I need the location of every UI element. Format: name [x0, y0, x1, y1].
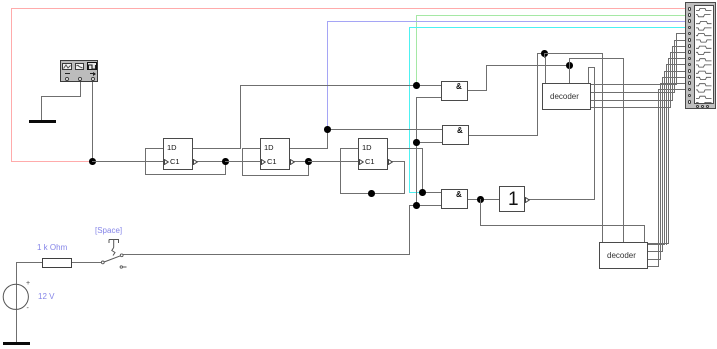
wire cyan: FF3 Q node to logic analyzer ch4	[0, 0, 717, 1]
wire: FF1 Q output up and right to node A	[0, 0, 717, 1]
wire: AND3 output junction down and right to decoder2 pin3	[0, 0, 717, 1]
node FF2 Q / blue wire junction	[324, 126, 331, 133]
wire: decoder1 output 2 to analyzer ch6	[0, 0, 717, 1]
AND gate U4	[0, 0, 717, 1]
wire: node D2 up and right then down to decoder2 pin2	[0, 0, 717, 1]
wire: decoder1 output 4 to analyzer ch8	[0, 0, 717, 1]
wire: AND3 output to inverter input	[468, 199, 499, 200]
wire red: function generator + to logic analyzer ch1 (routed left/top)	[0, 0, 717, 1]
wire green: node A (FF1 Q) up to logic analyzer ch2	[0, 0, 717, 1]
wire: AND1 output up and right to node D2	[0, 0, 717, 1]
wire: function generator + terminal down to node CLK	[92, 81, 93, 161]
wire: node D1 jog down to decoder1 pin1	[0, 0, 717, 1]
ground (function generator)	[29, 120, 56, 123]
decoder U8	[0, 0, 717, 1]
wire: decoder2 output 4 to analyzer ch14	[0, 0, 717, 1]
label V1 plus	[26, 280, 30, 287]
node CLK junction	[89, 158, 96, 165]
node switch/AND2 junction	[413, 139, 420, 146]
wire: decoder2 output 3 to analyzer ch13	[0, 0, 717, 1]
label V1 minus	[27, 305, 29, 312]
node on FF3 feedback loop	[368, 190, 375, 197]
flip-flop U1 (T from D)	[0, 0, 717, 1]
node switch/AND3 junction	[413, 202, 420, 209]
wire: switch signal chain vertical with branches to AND gates	[0, 0, 717, 1]
wire: 12V source to resistor	[0, 0, 717, 1]
inverter U7	[0, 0, 717, 1]
node D2 junction	[566, 62, 573, 69]
label [Space]	[95, 227, 122, 235]
wire: FF2 Q output up to blue node and AND2 input	[0, 0, 717, 1]
voltage source V1 12V	[2, 283, 30, 311]
wire: FF2 output junction to FF3 clock input	[308, 161, 359, 162]
label 1 k Ohm	[37, 244, 67, 252]
logic analyzer XLA1	[0, 0, 717, 1]
flip-flop U2	[0, 0, 717, 1]
node AND3 output junction	[477, 196, 484, 203]
wire: AND2 output up and right to node D1	[0, 0, 717, 1]
wire: analyzer ch9 down to decoder2 area	[0, 0, 717, 1]
wire: node CLK to FF1 clock input	[92, 161, 164, 162]
wire: decoder2 output 2 to analyzer ch12	[0, 0, 717, 1]
wire: FF1 output junction to FF2 clock input	[225, 161, 261, 162]
node FF3 Q / cyan wire junction	[419, 189, 426, 196]
AND gate U6	[0, 0, 717, 1]
wire: switch to AND chain (long horizontal)	[123, 254, 410, 255]
function generator XFG1	[0, 0, 717, 1]
wire: decoder1 output 1 to analyzer ch5	[0, 0, 717, 1]
AND gate U5	[0, 0, 717, 1]
ground (12V source)	[3, 342, 30, 345]
node FF2 output junction	[305, 158, 312, 165]
switch S1 (space key)	[96, 236, 132, 270]
node A junction (FF1 Q / green wire / AND1 input)	[413, 82, 420, 89]
resistor R1	[42, 258, 72, 268]
label 12 V	[38, 293, 54, 301]
decoder U9	[0, 0, 717, 1]
node FF1 output junction	[222, 158, 229, 165]
wire: analyzer ch10 down to decoder2 output 1	[0, 0, 717, 1]
node D1 junction	[541, 50, 548, 57]
wire blue: FF2 Q node up to logic analyzer ch3	[0, 0, 717, 1]
wire: FF3 feedback loop	[0, 0, 717, 1]
wire: function generator common terminal to ground	[0, 0, 717, 1]
wire: FF1 feedback loop (Q- to 1D)	[0, 0, 717, 1]
wire: node D2 down to decoder1 pin2	[569, 65, 570, 83]
flip-flop U3	[0, 0, 717, 1]
wire: inverter output right then up to decoder1 pin3	[0, 0, 717, 1]
wire: decoder2 output 1 to analyzer ch11	[0, 0, 717, 1]
wire: FF3 Q output down to cyan node and AND3 input	[0, 0, 717, 1]
wire: node D1 right then down to decoder2 pin1	[0, 0, 717, 1]
wire: decoder1 output 3 to analyzer ch7	[0, 0, 717, 1]
wire: resistor to switch	[71, 262, 102, 263]
wire: FF2 feedback loop	[0, 0, 717, 1]
